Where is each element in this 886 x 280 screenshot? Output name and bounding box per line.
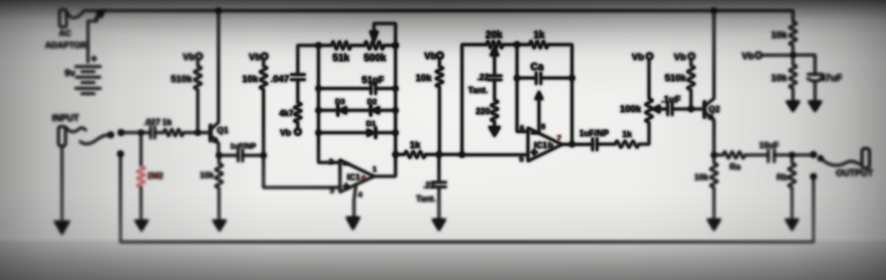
node D1 right: [393, 130, 398, 135]
connector J2 output jack: [862, 149, 870, 169]
svg-text:1k: 1k: [410, 140, 421, 151]
diode D1: [319, 132, 368, 134]
battery BT1 9v: [76, 67, 101, 94]
resistor R9 220: [491, 100, 498, 122]
svg-text:4: 4: [358, 190, 363, 199]
svg-text:Tant.: Tant.: [468, 85, 488, 95]
capacitor C4 51pF: [319, 87, 372, 89]
wire V+ top rail: [84, 10, 793, 12]
svg-text:D2: D2: [367, 97, 377, 106]
svg-text:Vb: Vb: [183, 52, 195, 63]
svg-text:10k: 10k: [416, 73, 433, 84]
resistor R15 Rb: [791, 155, 793, 163]
capacitor C9 .1uF: [668, 103, 673, 115]
node Q1 emitter: [216, 153, 221, 158]
node D2 right: [393, 108, 398, 113]
resistor R4 10k emitter: [215, 164, 222, 189]
svg-text:ADAPTOR: ADAPTOR: [45, 40, 87, 50]
node D1 left: [316, 130, 321, 135]
potentiometer VR2 20k: [487, 41, 504, 48]
node output ring contact: [811, 174, 817, 180]
connector J1 input jack: [59, 127, 66, 147]
potentiometer VR2 20k: [487, 41, 504, 48]
wire out to R8: [396, 154, 405, 156]
resistor R9 220: [491, 100, 498, 122]
node D1 right: [393, 130, 398, 135]
node D1 right: [393, 130, 398, 135]
op-amp U1a IC1a: [340, 160, 374, 192]
svg-text:2M2: 2M2: [148, 172, 164, 181]
wire input jack tip contact: [66, 128, 86, 132]
wire 20k rail: [462, 45, 487, 155]
node output spring contact: [818, 156, 823, 161]
resistor R8 1k out: [405, 151, 426, 158]
wire out to R8: [396, 153, 405, 155]
node output spring contact: [818, 156, 823, 161]
wire pin8 up arrow: [538, 100, 540, 134]
svg-text:Q2: Q2: [709, 104, 721, 114]
capacitor C1 .027: [151, 127, 155, 138]
node C5 junction: [436, 152, 441, 157]
wire ground return rail: [121, 154, 814, 242]
resistor R16 10k upper: [792, 11, 794, 22]
ground input jack: [54, 221, 70, 235]
terminal Vb 100k: [647, 53, 653, 59]
capacitor C6 .22 Tant tone: [488, 76, 502, 80]
svg-text:1k: 1k: [162, 117, 172, 127]
terminal Vb Q1: [196, 53, 202, 59]
terminal Vb pin3: [262, 53, 268, 59]
svg-text:IC1: IC1: [534, 140, 548, 150]
transistor Q2: [703, 102, 706, 117]
node input switch throw: [118, 130, 124, 136]
wire R2 to Q1 base: [184, 132, 211, 134]
svg-text:a: a: [361, 172, 366, 182]
connector J3 AC adaptor jack: [60, 10, 67, 28]
resistor R9 220: [491, 100, 498, 122]
svg-text:Ca: Ca: [531, 62, 544, 73]
capacitor C1 .027: [151, 127, 155, 138]
wire to pin5: [462, 154, 528, 156]
resistor R13 10k Q2: [713, 155, 715, 163]
ground 10k Q2: [707, 219, 721, 231]
terminal Vb 100k: [647, 53, 653, 59]
svg-text:INPUT: INPUT: [52, 113, 80, 123]
capacitor C11 47uF: [793, 55, 815, 74]
wire IC1b out rail up: [571, 78, 573, 144]
wire pin8 up arrow: [538, 100, 540, 134]
node pin6 rail top: [514, 42, 519, 47]
wire output jack spring: [821, 159, 861, 166]
wire input to C1: [121, 132, 150, 134]
capacitor C10 10uF: [768, 150, 774, 163]
node D3 left: [316, 108, 321, 113]
ground 10k emitter: [213, 220, 227, 232]
wire output jack spring: [821, 159, 861, 166]
wire IC1b out rail up: [571, 78, 573, 144]
capacitor C2 1uF/NP: [219, 154, 238, 156]
resistor R15 Rb: [791, 155, 793, 163]
potentiometer VR2 20k: [487, 41, 504, 48]
terminal Vb 10k mid: [437, 53, 443, 59]
diode D3: [319, 109, 339, 111]
svg-text:.047: .047: [271, 74, 290, 85]
capacitor C11 47uF: [793, 55, 815, 74]
resistor R11 1k vol: [615, 141, 639, 148]
wire inverting rail: [319, 45, 341, 162]
node input switch pole: [108, 132, 114, 138]
node 51pF left: [316, 86, 321, 91]
node Q2 emitter: [711, 152, 716, 157]
wire AC jack tip contact: [68, 11, 84, 18]
terminal Vb 4k7: [295, 129, 301, 135]
node 20k rail: [459, 152, 464, 157]
capacitor C2 1uF/NP: [219, 154, 238, 156]
node Vb source: [790, 52, 795, 57]
diode D1: [319, 132, 368, 134]
resistor R17 10k lower: [789, 65, 796, 89]
svg-text:Vb: Vb: [742, 51, 754, 62]
node 51pF left: [316, 86, 321, 91]
node Q2 emitter: [711, 152, 716, 157]
ground 2M2: [135, 220, 149, 232]
svg-text:1uF/NP: 1uF/NP: [230, 142, 256, 151]
svg-text:1k: 1k: [533, 30, 545, 41]
ground 10k lower: [786, 101, 800, 112]
svg-text:D1: D1: [366, 119, 376, 128]
node Q1 base: [195, 130, 200, 135]
terminal Vb 510k2: [689, 53, 695, 59]
ground input jack: [54, 221, 70, 235]
transistor Q1: [209, 125, 212, 140]
svg-text:2: 2: [329, 157, 333, 166]
transistor Q1: [209, 125, 212, 140]
connector J1 input jack: [59, 127, 66, 147]
svg-text:AC: AC: [59, 28, 71, 38]
resistor R10 1k tone: [530, 41, 549, 48]
diode D1: [319, 132, 368, 134]
svg-text:Vb: Vb: [424, 51, 436, 62]
node stage1 out: [393, 152, 398, 157]
potentiometer VR3 100k: [648, 59, 650, 98]
capacitor C3 .047: [297, 45, 299, 74]
wire to IC1a pin3: [264, 155, 341, 187]
svg-text:Rb: Rb: [777, 172, 788, 182]
wire IC1a pin4 ground: [354, 184, 356, 226]
wire to IC1a pin3: [264, 155, 341, 187]
battery BT1 9v: [76, 67, 101, 94]
node input ring contact: [118, 151, 124, 157]
resistor R6 4k7: [294, 103, 301, 123]
wire input jack sleeve to ground: [61, 146, 63, 230]
node D2 right: [393, 108, 398, 113]
connector J2 output jack: [862, 149, 870, 169]
wire input jack sleeve to ground: [61, 146, 63, 230]
transistor Q2: [703, 102, 706, 117]
wire 51k to 500k: [351, 44, 365, 46]
svg-text:220: 220: [476, 106, 490, 116]
svg-text:3: 3: [330, 186, 334, 195]
capacitor C5 .22 Tant: [438, 155, 440, 183]
terminal Vb source: [756, 52, 762, 58]
node input switch pole: [108, 132, 114, 138]
node pin3 junction: [261, 153, 266, 158]
capacitor C10 10uF: [768, 150, 774, 163]
svg-text:10k: 10k: [200, 170, 214, 180]
wire AC jack tip contact: [68, 11, 84, 18]
node input switch throw: [118, 130, 124, 136]
capacitor C10 10uF: [768, 150, 774, 163]
capacitor C8 1uF/NP: [593, 138, 597, 150]
node pin6 rail top: [514, 42, 519, 47]
node D3 left: [316, 108, 321, 113]
svg-text:5: 5: [519, 155, 523, 164]
node Q1 emitter: [216, 153, 221, 158]
capacitor C1 .027: [151, 127, 155, 138]
switch battery arrow to rail: [96, 15, 101, 19]
ground 47uF: [808, 101, 822, 112]
node output switch: [811, 152, 817, 158]
node input switch pole: [108, 132, 114, 138]
wire ground return rail: [121, 154, 814, 242]
wire C1 to R2: [155, 132, 164, 134]
resistor R11 1k vol: [615, 141, 639, 148]
node Q1 base: [195, 130, 200, 135]
resistor R12 510k 2: [690, 59, 692, 65]
wire IC1b output: [562, 143, 592, 145]
switch battery arrow to rail: [96, 15, 101, 19]
svg-text:510k: 510k: [665, 73, 687, 84]
node inverting rail top: [316, 43, 321, 48]
ground C5: [432, 219, 446, 231]
ground 220: [489, 127, 501, 138]
transistor Q1: [209, 125, 212, 140]
capacitor C8 1uF/NP: [593, 138, 597, 150]
svg-text:9v: 9v: [65, 68, 76, 79]
resistor R5 10k bias: [263, 59, 265, 66]
op-amp U1b IC1b: [528, 128, 562, 161]
node V+ at Q1 collector: [216, 8, 221, 13]
ground 10k lower: [786, 101, 800, 112]
svg-text:b: b: [548, 140, 553, 150]
node input ring contact: [118, 151, 124, 157]
node D1 left: [316, 130, 321, 135]
resistor R15 Rb: [791, 155, 793, 163]
resistor R10 1k tone: [530, 41, 549, 48]
node 20k rail: [459, 152, 464, 157]
wire output rail: [374, 45, 396, 176]
wire IC1a pin4 ground: [354, 184, 356, 226]
ground IC1a pin4: [346, 217, 360, 230]
wire V+ top rail: [84, 10, 793, 12]
node 2M2 top: [139, 130, 144, 135]
wire IC1a pin4 ground: [354, 184, 356, 226]
node Q1 emitter: [216, 153, 221, 158]
node Ca left: [514, 75, 519, 80]
terminal Vb pin3: [262, 53, 268, 59]
wire output rail: [374, 45, 396, 176]
resistor R4 10k emitter: [215, 164, 222, 189]
wire C1 to R2: [155, 132, 164, 134]
svg-text:10k: 10k: [694, 172, 708, 182]
switch battery arrow to rail: [96, 15, 101, 19]
resistor R7 51k: [332, 41, 352, 49]
node C5 junction: [436, 152, 441, 157]
resistor R8 1k out: [405, 151, 426, 158]
resistor R1 2M2: [140, 133, 142, 167]
node Q2 emitter: [711, 152, 716, 157]
connector J2 output jack: [862, 149, 870, 169]
resistor R5 10k bias: [262, 59, 264, 66]
capacitor C9 .1uF: [668, 103, 673, 115]
wire to IC1a pin3: [264, 155, 341, 187]
svg-text:.027: .027: [144, 117, 161, 127]
wire 51k to 500k: [351, 44, 365, 46]
wire input to C1: [121, 132, 150, 134]
svg-text:Vb: Vb: [280, 128, 291, 138]
wire inverting rail: [319, 45, 341, 162]
transistor Q2: [703, 102, 706, 117]
resistor R5 10k bias: [263, 59, 265, 66]
ground 10k emitter: [213, 220, 227, 232]
resistor R1 2M2: [140, 133, 142, 167]
terminal Vb 100k: [647, 53, 653, 59]
resistor R13 10k Q2: [713, 155, 715, 163]
ground 10k Q2: [707, 219, 721, 231]
op-amp U1b IC1b: [528, 128, 562, 161]
diode D3: [319, 109, 339, 111]
wire AC jack tip contact: [68, 11, 84, 18]
resistor R2 1k input: [164, 129, 184, 136]
svg-text:.22: .22: [477, 72, 489, 82]
node Ca left: [514, 75, 519, 80]
ground 2M2: [135, 220, 149, 232]
node Ca left: [514, 75, 519, 80]
svg-text:4k7: 4k7: [279, 108, 293, 118]
svg-text:8: 8: [541, 122, 545, 131]
ground 47uF: [808, 101, 822, 112]
node IC1b out: [569, 142, 574, 147]
svg-text:Vb: Vb: [674, 52, 686, 63]
capacitor C7 Ca: [517, 77, 536, 79]
terminal Vb 4k7: [295, 129, 301, 135]
resistor R3 510k: [197, 59, 199, 66]
svg-text:6: 6: [520, 124, 524, 133]
resistor R7 51k: [332, 41, 352, 49]
svg-text:10uF: 10uF: [759, 140, 779, 150]
wire pin6 rail: [517, 45, 528, 132]
wire out to R8: [396, 154, 405, 156]
resistor R16 10k upper: [792, 11, 794, 22]
capacitor C11 47uF: [793, 55, 815, 74]
resistor R16 10k upper: [792, 11, 794, 22]
ground 2M2: [135, 220, 149, 232]
wire ground return rail: [121, 154, 814, 242]
node 2M2 top: [139, 130, 144, 135]
wire input jack spring: [80, 135, 108, 144]
node IC1b out: [569, 142, 574, 147]
node V+ at Q1 collector: [216, 8, 221, 13]
svg-text:10k: 10k: [242, 74, 259, 85]
battery BT1 9v: [76, 67, 101, 94]
node inverting rail top: [316, 43, 321, 48]
svg-text:Q1: Q1: [217, 125, 229, 135]
node output spring contact: [818, 156, 823, 161]
potentiometer VR1 500k: [365, 41, 385, 49]
node C5 junction: [436, 152, 441, 157]
node D2 right: [393, 108, 398, 113]
capacitor C5 .22 Tant: [438, 155, 440, 183]
node 20k rail: [459, 152, 464, 157]
resistor R6 4k7: [294, 103, 301, 123]
op-amp U1a IC1a: [340, 160, 374, 192]
node input switch throw: [118, 130, 124, 136]
capacitor C2 1uF/NP: [219, 154, 238, 156]
wire feedback top: [298, 44, 332, 46]
node Q1 base: [195, 130, 200, 135]
node D1 left: [316, 130, 321, 135]
node Q2 base: [688, 106, 693, 111]
node Rb top: [789, 152, 794, 157]
capacitor C8 1uF/NP: [593, 138, 597, 150]
ground 47uF: [808, 101, 822, 112]
wire pin6 rail: [517, 45, 528, 132]
node Ca right: [569, 75, 574, 80]
wire input to C1: [121, 132, 150, 134]
wire Vb terminal: [761, 54, 793, 56]
wire Vb terminal: [761, 54, 793, 56]
terminal Vb 510k2: [689, 53, 695, 59]
node output ring contact: [811, 174, 817, 180]
svg-text:20k: 20k: [486, 30, 503, 41]
wire 20k rail: [462, 45, 487, 155]
resistor R18 10k mid: [438, 58, 440, 66]
node Ca right: [569, 75, 574, 80]
connector J3 AC adaptor jack: [60, 10, 67, 28]
diode D2: [371, 106, 379, 114]
svg-text:Vb: Vb: [632, 52, 644, 63]
svg-text:1uF/NP: 1uF/NP: [579, 128, 609, 138]
node output ring contact: [811, 174, 817, 180]
resistor R8 1k out: [405, 151, 426, 158]
svg-text:51k: 51k: [333, 53, 350, 64]
node V+ at Q1 collector: [216, 8, 221, 13]
resistor R13 10k Q2: [713, 155, 715, 163]
node stage1 out: [393, 152, 398, 157]
wire input jack spring: [80, 135, 108, 144]
capacitor C4 51pF: [319, 88, 372, 90]
node V+ at Q2 collector: [711, 8, 716, 13]
potentiometer VR1 500k: [365, 41, 385, 49]
node Vb source: [790, 52, 795, 57]
svg-text:1: 1: [373, 165, 377, 174]
capacitor C5 .22 Tant: [438, 155, 440, 183]
resistor R17 10k lower: [789, 65, 796, 89]
resistor R10 1k tone: [530, 41, 549, 48]
wire pin6 rail: [517, 45, 528, 132]
wire Vb terminal: [761, 54, 793, 56]
ground IC1a pin4: [346, 217, 360, 230]
wire 20k rail: [462, 45, 487, 155]
node Rb top: [789, 152, 794, 157]
connector J1 input jack: [59, 127, 66, 147]
node 51pF right: [393, 86, 398, 91]
node input ring contact: [118, 151, 124, 157]
wire input jack tip contact: [66, 128, 86, 132]
node V+ at Q2 collector: [711, 8, 716, 13]
terminal Vb 510k2: [689, 53, 695, 59]
diode D2: [371, 106, 379, 114]
